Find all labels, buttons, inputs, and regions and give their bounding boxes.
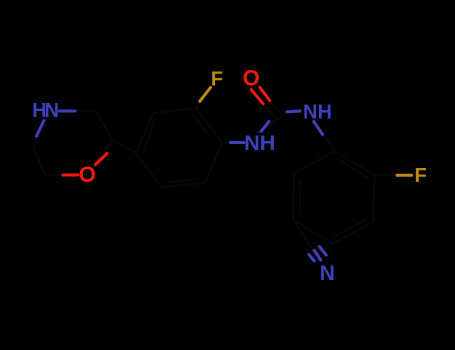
morpholine N-C bond (blue half): [60, 110, 76, 113]
left ring inner double bonds: [143, 116, 207, 183]
urea C-N right bond: [284, 112, 301, 115]
svg-text:O: O: [79, 162, 96, 187]
urea N1 bond to carbonyl (blue half): [261, 122, 269, 132]
morpholine O-C bond upper right (red half): [96, 154, 108, 165]
svg-text:O: O: [243, 65, 260, 90]
svg-text:F: F: [414, 165, 426, 187]
svg-text:N: N: [320, 262, 335, 285]
C=O double bond red halves: [251, 90, 263, 104]
right benzene ring: [293, 151, 375, 244]
bond right ring to nitrile C: [293, 220, 310, 246]
urea N1 bond to ring (blue half): [231, 141, 245, 144]
bond left ring to F: [196, 88, 211, 109]
morpholine O-C bond left (red half): [63, 174, 78, 177]
svg-text:F: F: [211, 68, 223, 90]
bond left ring to urea N: [222, 142, 244, 144]
svg-text:HN: HN: [32, 100, 58, 122]
bond right ring to F: [375, 174, 398, 176]
urea N-C bond: [256, 115, 284, 135]
carbon skeleton (near-black): [33, 88, 397, 258]
left benzene ring: [136, 108, 222, 188]
right ring inner double bonds: [300, 159, 368, 236]
svg-text:NH: NH: [244, 131, 275, 155]
bond morpholine C2 to left ring: [112, 140, 136, 153]
colored half-bonds: [37, 87, 412, 261]
nitrile triple bond dark halves: [305, 242, 321, 257]
C-F bond left (gold half): [200, 88, 211, 102]
morpholine N-C bond lower (blue half): [37, 121, 45, 137]
nitrile triple bond blue halves: [320, 247, 327, 256]
urea N2 bond to carbonyl (blue half): [287, 110, 300, 114]
svg-text:NH: NH: [303, 101, 332, 123]
bond right N to right ring: [314, 121, 335, 151]
C-F bond right (gold half): [397, 174, 412, 177]
urea N2 bond to right ring (blue half): [314, 121, 323, 134]
morpholine ring: [33, 111, 112, 176]
carbonyl C=O dark halves: [263, 104, 275, 117]
